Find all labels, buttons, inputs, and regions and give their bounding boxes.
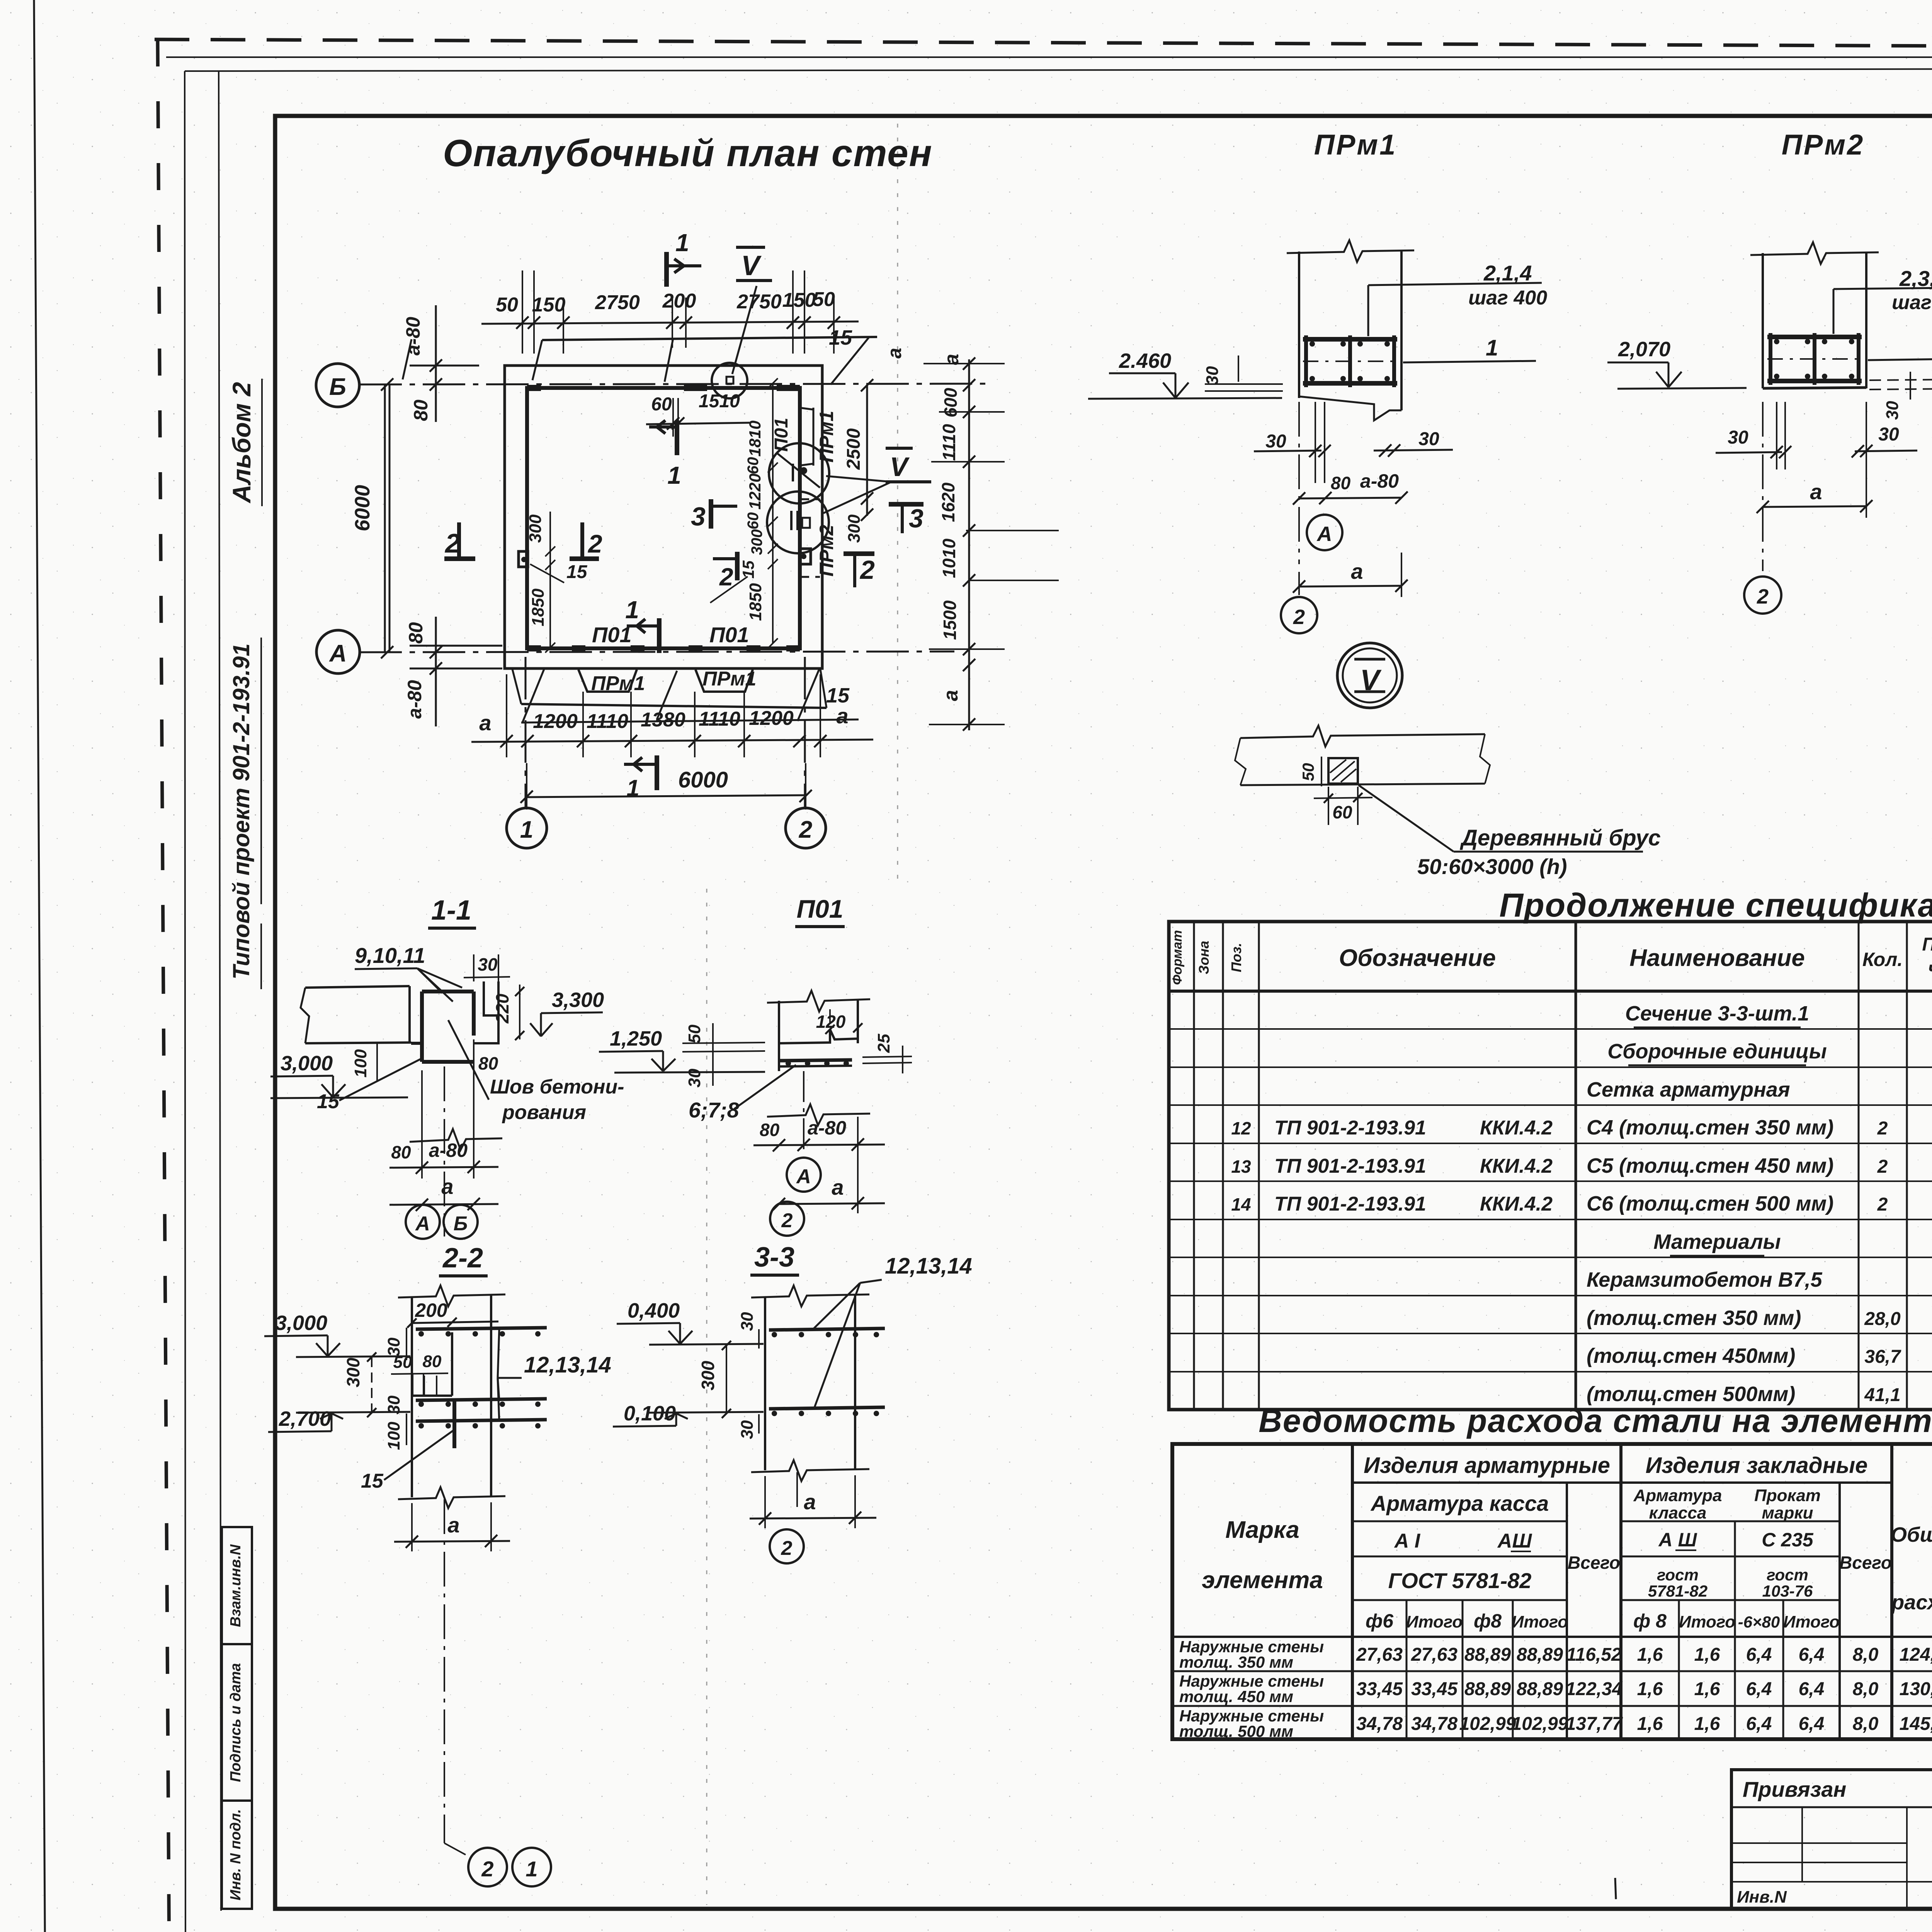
small mark below frame	[1615, 1878, 1616, 1899]
svg-text:(толщ.стен 350 мм): (толщ.стен 350 мм)	[1587, 1306, 1801, 1330]
plan outer wall contour	[505, 366, 822, 668]
3-3 circle 2	[770, 1529, 804, 1563]
3-3 bottom break	[751, 1460, 869, 1481]
svg-text:80: 80	[405, 622, 427, 644]
break line bottom	[410, 1129, 502, 1150]
svg-text:А Ш: А Ш	[1658, 1529, 1697, 1551]
axis 2 vertical	[804, 657, 806, 808]
svg-text:Всего: Всего	[1839, 1553, 1892, 1573]
svg-text:ПРм1: ПРм1	[816, 411, 837, 463]
svg-text:8,0: 8,0	[1853, 1714, 1879, 1734]
svg-text:толщ. 450 мм: толщ. 450 мм	[1179, 1687, 1293, 1706]
plan inner wall contour	[527, 388, 800, 648]
svg-text:класса: класса	[1649, 1503, 1707, 1522]
svg-text:Арматура: Арматура	[1633, 1486, 1722, 1505]
svg-text:гост: гост	[1767, 1566, 1808, 1584]
svg-text:Формат: Формат	[1170, 930, 1185, 985]
svg-text:116,52: 116,52	[1566, 1645, 1622, 1665]
slanted leaders bottom	[522, 669, 544, 723]
svg-text:1: 1	[626, 775, 639, 801]
3-3 top break	[751, 1286, 869, 1306]
svg-text:-6×80: -6×80	[1738, 1613, 1780, 1631]
svg-text:Сечение 3-3-шт.1: Сечение 3-3-шт.1	[1625, 1002, 1809, 1025]
svg-text:ПРм2: ПРм2	[816, 525, 837, 577]
outer dashed cut border top	[155, 39, 1932, 49]
svg-text:П01: П01	[592, 622, 632, 647]
svg-text:33,45: 33,45	[1356, 1679, 1403, 1699]
svg-text:1010: 1010	[939, 538, 959, 578]
svg-text:15: 15	[739, 560, 757, 578]
section 1-1 lower axis	[444, 1066, 445, 1236]
svg-text:1810: 1810	[746, 420, 764, 456]
svg-text:102,99: 102,99	[1512, 1714, 1568, 1734]
svg-text:а: а	[479, 711, 491, 735]
svg-text:ТП 901-2-193.91: ТП 901-2-193.91	[1274, 1193, 1426, 1215]
svg-text:12,13,14: 12,13,14	[524, 1352, 611, 1378]
П01 wall outline	[778, 1001, 780, 1071]
svg-text:600: 600	[940, 388, 961, 417]
svg-text:ГОСТ 5781-82: ГОСТ 5781-82	[1388, 1568, 1532, 1593]
svg-text:ПРм1: ПРм1	[591, 672, 645, 695]
svg-text:1: 1	[520, 816, 533, 843]
svg-text:Взам.инв.N: Взам.инв.N	[228, 1544, 244, 1627]
ПРм1 wall verticals	[1298, 252, 1300, 398]
Привязан rows	[1731, 1806, 1932, 1808]
right wall callout circles	[769, 443, 829, 503]
svg-text:12: 12	[1231, 1118, 1251, 1138]
svg-text:а: а	[836, 704, 848, 728]
3-3 rebar bottom	[769, 1407, 885, 1409]
svg-text:33,45: 33,45	[1411, 1679, 1458, 1699]
svg-text:13: 13	[1231, 1156, 1251, 1177]
svg-text:2: 2	[719, 563, 733, 591]
svg-text:50: 50	[496, 294, 518, 316]
П01 circle 2	[770, 1202, 804, 1236]
svg-text:Опалубочный план стен: Опалубочный план стен	[443, 132, 933, 174]
svg-text:1-1: 1-1	[431, 895, 471, 926]
svg-text:6,4: 6,4	[1799, 1645, 1825, 1665]
svg-text:Зона: Зона	[1196, 941, 1212, 975]
svg-text:Итого: Итого	[1679, 1612, 1735, 1631]
dim 6000 bottom	[527, 795, 806, 797]
svg-text:ККИ.4.2: ККИ.4.2	[1480, 1155, 1553, 1177]
svg-text:рования: рования	[502, 1101, 586, 1124]
svg-text:Материалы: Материалы	[1653, 1230, 1781, 1253]
svg-text:2: 2	[481, 1857, 493, 1881]
svg-text:а-80: а-80	[808, 1117, 846, 1139]
main frame	[275, 116, 1932, 1909]
steel table outer frame	[1172, 1444, 1932, 1739]
П01 circle А	[787, 1158, 821, 1192]
svg-text:6,4: 6,4	[1799, 1714, 1825, 1734]
svg-text:Инв. N подл.: Инв. N подл.	[228, 1809, 244, 1900]
svg-text:124,52: 124,52	[1900, 1645, 1932, 1665]
section mark 1 (top)	[664, 252, 669, 287]
svg-text:50: 50	[1299, 763, 1317, 781]
wood beam detail lines	[1240, 726, 1485, 747]
svg-text:100: 100	[351, 1049, 370, 1078]
svg-text:2,3,4: 2,3,4	[1899, 266, 1932, 291]
svg-text:30: 30	[738, 1312, 757, 1331]
ПРм2 lintel frame КР2	[1767, 335, 1862, 339]
svg-text:2: 2	[781, 1209, 793, 1232]
svg-text:2-2: 2-2	[442, 1243, 483, 1274]
svg-text:9,10,11: 9,10,11	[355, 943, 425, 968]
svg-text:1380: 1380	[641, 709, 685, 731]
svg-text:а: а	[804, 1490, 816, 1514]
left stamp column boxes	[222, 1527, 252, 1909]
svg-text:1,6: 1,6	[1637, 1714, 1663, 1734]
2-2 bottom break	[398, 1487, 505, 1508]
svg-text:1620: 1620	[938, 482, 958, 522]
svg-text:Ведомость расхода стали на: Ведомость расхода стали на элемент, кг	[1259, 1403, 1932, 1439]
svg-text:1,250: 1,250	[610, 1027, 662, 1050]
svg-text:30: 30	[478, 954, 498, 975]
2-2 circles 2 1	[468, 1848, 507, 1886]
svg-text:2,700: 2,700	[279, 1407, 331, 1430]
ПРм2 wall verticals	[1762, 253, 1764, 388]
svg-text:80: 80	[1331, 473, 1351, 493]
svg-text:ККИ.4.2: ККИ.4.2	[1480, 1117, 1553, 1139]
svg-text:а: а	[940, 354, 963, 365]
svg-text:30: 30	[1203, 366, 1222, 385]
svg-text:а: а	[940, 690, 962, 701]
scan edge line left	[34, 0, 46, 1932]
svg-text:6,4: 6,4	[1746, 1679, 1772, 1699]
svg-text:30: 30	[1418, 429, 1439, 449]
opening edge marks on inner face	[572, 645, 585, 651]
small marker on left wall	[519, 551, 528, 567]
svg-text:5781-82: 5781-82	[1648, 1582, 1708, 1600]
svg-text:3,000: 3,000	[281, 1052, 333, 1075]
svg-text:2: 2	[1877, 1118, 1888, 1139]
section mark 2 exterior right	[844, 551, 874, 556]
fold crease vertical dotted lower	[706, 889, 707, 1905]
right wall window dashed	[799, 498, 820, 500]
svg-text:300: 300	[698, 1361, 718, 1390]
svg-text:С6 (толщ.стен 500 мм): С6 (толщ.стен 500 мм)	[1587, 1192, 1833, 1215]
2-2 top break	[398, 1286, 505, 1306]
section mark 2 interior right	[735, 552, 740, 580]
svg-text:Типовой проект 901-2-193.91: Типовой проект 901-2-193.91	[228, 643, 254, 980]
svg-text:а-80: а-80	[402, 317, 424, 355]
svg-text:145,77: 145,77	[1900, 1714, 1932, 1734]
svg-text:1110: 1110	[939, 424, 959, 461]
svg-text:Подпись и дата: Подпись и дата	[228, 1663, 244, 1782]
svg-text:200: 200	[662, 290, 696, 312]
svg-text:25: 25	[874, 1034, 893, 1053]
thin border left	[185, 71, 185, 1932]
svg-text:1: 1	[667, 461, 681, 489]
svg-text:1200: 1200	[533, 710, 578, 733]
svg-text:Поз.: Поз.	[1228, 943, 1244, 972]
svg-text:1220: 1220	[746, 473, 764, 509]
circles А Б section 1-1	[406, 1205, 440, 1239]
continuation row lines	[1169, 1028, 1932, 1030]
svg-text:2750: 2750	[736, 291, 782, 313]
svg-text:1,6: 1,6	[1694, 1679, 1720, 1699]
svg-text:а-80: а-80	[1360, 470, 1399, 492]
3-3 rebar top	[769, 1328, 885, 1330]
svg-text:80: 80	[391, 1142, 411, 1162]
axis А horizontal	[359, 651, 954, 652]
svg-text:2750: 2750	[595, 291, 640, 314]
svg-text:Б: Б	[454, 1213, 468, 1235]
formwork band bottom with window openings ПРм1	[521, 704, 827, 708]
svg-text:а-80: а-80	[404, 680, 425, 719]
svg-text:80: 80	[423, 1352, 442, 1371]
thin border line top A	[166, 56, 1932, 58]
svg-text:88,89: 88,89	[1517, 1645, 1563, 1665]
svg-text:Общий: Общий	[1891, 1523, 1932, 1546]
dim 6000 left vertical	[384, 384, 386, 652]
svg-text:28,0: 28,0	[1864, 1309, 1901, 1329]
continuation table column lines	[1193, 922, 1195, 1410]
3-3 axis	[796, 1472, 798, 1511]
svg-text:15: 15	[317, 1090, 340, 1113]
svg-text:6,4: 6,4	[1746, 1645, 1772, 1665]
svg-text:V: V	[890, 452, 910, 482]
2-2 wall verticals	[411, 1296, 413, 1497]
svg-text:П01: П01	[797, 895, 844, 923]
svg-text:шаг 400: шаг 400	[1892, 291, 1932, 314]
svg-text:6,4: 6,4	[1799, 1679, 1825, 1699]
continuation header bottom	[1169, 990, 1932, 993]
axis 1 vertical	[525, 657, 527, 808]
svg-text:88,89: 88,89	[1464, 1645, 1511, 1665]
ПРм1 top break line	[1287, 240, 1414, 262]
ПРм2 top break line	[1750, 242, 1879, 264]
svg-text:14: 14	[1231, 1194, 1251, 1214]
svg-text:2500: 2500	[844, 428, 864, 470]
svg-text:расход: расход	[1891, 1591, 1932, 1614]
П01 break bottom	[767, 1104, 870, 1125]
svg-text:2: 2	[587, 529, 602, 558]
formwork sheathing line above top wall	[542, 337, 877, 340]
svg-text:1850: 1850	[746, 583, 765, 621]
svg-text:шаг 400: шаг 400	[1468, 287, 1547, 309]
interior section mark 1 (bottom)	[657, 618, 662, 653]
callout circle on top wall	[712, 363, 747, 398]
svg-text:V: V	[741, 250, 762, 281]
svg-text:толщ. 350 мм: толщ. 350 мм	[1179, 1653, 1293, 1671]
svg-text:1850: 1850	[529, 588, 548, 626]
svg-text:а: а	[884, 348, 905, 359]
axis circle 1	[507, 808, 547, 848]
svg-text:ПРм1: ПРм1	[1314, 129, 1397, 161]
svg-text:50: 50	[813, 288, 835, 311]
ПРм1 axis circle А	[1307, 515, 1342, 550]
svg-text:30: 30	[738, 1420, 757, 1439]
svg-text:15: 15	[566, 562, 588, 582]
svg-text:1: 1	[675, 229, 689, 257]
svg-text:Прокат: Прокат	[1754, 1486, 1821, 1505]
svg-text:Обозначение: Обозначение	[1339, 945, 1496, 971]
svg-text:элемента: элемента	[1202, 1567, 1323, 1594]
svg-text:34,78: 34,78	[1356, 1714, 1403, 1734]
2-2 rebar lower	[416, 1420, 547, 1421]
svg-text:Марка: Марка	[1225, 1517, 1299, 1543]
svg-text:толщ. 500 мм: толщ. 500 мм	[1179, 1722, 1293, 1740]
node V double circle	[1337, 643, 1402, 708]
right vertical dimension chain	[968, 359, 970, 730]
bottom dimension chain a 1200 1110 1380 1110 1200 a	[471, 740, 873, 742]
axis circle А	[316, 630, 360, 673]
svg-text:Керамзитобетон В7,5: Керамзитобетон В7,5	[1587, 1268, 1823, 1291]
svg-text:а: а	[441, 1174, 453, 1199]
fold crease vertical dotted upper	[897, 124, 898, 889]
svg-text:чание: чание	[1928, 958, 1932, 979]
ПРм1 axis circle 2	[1298, 572, 1300, 597]
svg-text:Приме-: Приме-	[1922, 934, 1932, 955]
svg-text:1110: 1110	[699, 708, 740, 730]
svg-text:2: 2	[859, 555, 875, 585]
svg-text:Итого: Итого	[1512, 1612, 1568, 1631]
svg-text:300: 300	[845, 514, 864, 543]
svg-text:103-76: 103-76	[1762, 1582, 1813, 1600]
ПРм1 bottom step	[1299, 396, 1401, 420]
svg-text:Шов бетони-: Шов бетони-	[490, 1076, 624, 1098]
svg-text:2,070: 2,070	[1618, 338, 1670, 361]
svg-text:300: 300	[748, 529, 765, 555]
svg-text:30: 30	[1265, 431, 1286, 452]
svg-text:2,1,4: 2,1,4	[1483, 261, 1532, 285]
svg-text:3-3: 3-3	[754, 1242, 794, 1273]
svg-text:15: 15	[829, 326, 852, 349]
svg-text:30: 30	[1728, 427, 1748, 448]
svg-text:88,89: 88,89	[1517, 1679, 1563, 1699]
svg-text:ТП 901-2-193.91: ТП 901-2-193.91	[1274, 1155, 1426, 1177]
svg-text:1,6: 1,6	[1637, 1679, 1663, 1699]
svg-text:27,63: 27,63	[1411, 1645, 1458, 1665]
svg-text:2: 2	[1293, 605, 1305, 629]
svg-text:12,13,14: 12,13,14	[885, 1253, 972, 1279]
2-2 rebar middle	[416, 1399, 547, 1400]
slab left band	[305, 986, 410, 988]
svg-text:130,34: 130,34	[1900, 1679, 1932, 1699]
svg-text:6,4: 6,4	[1746, 1714, 1772, 1734]
svg-text:150: 150	[532, 294, 566, 316]
svg-text:А: А	[329, 640, 347, 667]
svg-text:Наименование: Наименование	[1629, 945, 1805, 971]
svg-text:Продолжение спецификации: Продолжение спецификации	[1499, 887, 1932, 924]
svg-text:С4 (толщ.стен 350 мм): С4 (толщ.стен 350 мм)	[1587, 1116, 1833, 1139]
svg-text:80: 80	[478, 1053, 498, 1073]
svg-text:(толщ.стен 500мм): (толщ.стен 500мм)	[1587, 1383, 1795, 1406]
svg-text:88,89: 88,89	[1464, 1679, 1511, 1699]
svg-text:Арматура касса: Арматура касса	[1370, 1491, 1549, 1515]
svg-text:Б: Б	[329, 374, 346, 400]
svg-text:1500: 1500	[940, 600, 960, 640]
svg-text:ф8: ф8	[1474, 1610, 1502, 1632]
svg-text:марки: марки	[1762, 1503, 1813, 1522]
svg-text:а: а	[832, 1175, 844, 1199]
svg-text:а: а	[1810, 480, 1822, 504]
wall corner profile	[408, 986, 411, 1043]
axis circle 2	[786, 808, 826, 848]
axis circle Б	[316, 364, 359, 407]
svg-text:100: 100	[384, 1422, 403, 1450]
window opening trapezoid right	[696, 670, 753, 692]
svg-text:60: 60	[1332, 802, 1352, 822]
outer dashed cut border left	[158, 39, 169, 1932]
wood beam square with hatch	[1328, 758, 1358, 784]
svg-text:Кол.: Кол.	[1862, 949, 1903, 970]
svg-text:50: 50	[393, 1353, 412, 1372]
dim a-80 / 80 near axis Б	[435, 305, 437, 422]
svg-text:А: А	[1316, 522, 1332, 546]
svg-text:Привязан: Привязан	[1743, 1777, 1846, 1801]
svg-text:36,7: 36,7	[1864, 1347, 1901, 1367]
interior section mark 1 (center)	[675, 420, 679, 455]
svg-text:Альбом 2: Альбом 2	[227, 382, 256, 503]
svg-text:Итого: Итого	[1406, 1612, 1463, 1631]
svg-text:ККИ.4.2: ККИ.4.2	[1480, 1193, 1553, 1215]
svg-text:15: 15	[361, 1470, 384, 1492]
svg-text:122,34: 122,34	[1566, 1679, 1622, 1699]
svg-text:34,78: 34,78	[1411, 1714, 1458, 1734]
svg-text:150: 150	[782, 289, 816, 311]
svg-text:2: 2	[1757, 585, 1769, 608]
svg-text:ТП 901-2-193.91: ТП 901-2-193.91	[1274, 1117, 1426, 1139]
svg-text:Итого: Итого	[1783, 1612, 1840, 1631]
2-2 window notch	[451, 1332, 453, 1396]
svg-text:50:60×3000 (h): 50:60×3000 (h)	[1417, 854, 1567, 879]
svg-text:30: 30	[1878, 424, 1899, 445]
Привязан block outer	[1731, 1770, 1932, 1909]
interior dim chain right wall	[772, 383, 774, 643]
section mark 2 interior left	[580, 522, 584, 556]
svg-text:ПРм2: ПРм2	[1782, 129, 1864, 161]
ПРм1 lintel frame КР1	[1303, 337, 1397, 342]
section mark 1 at 6000 dim	[655, 755, 659, 790]
svg-text:3: 3	[691, 502, 706, 531]
3-3 wall verticals	[764, 1296, 766, 1470]
svg-text:6;7;8: 6;7;8	[689, 1098, 740, 1122]
svg-text:200: 200	[415, 1299, 447, 1321]
continuation table outer frame	[1169, 922, 1932, 1410]
svg-text:ф6: ф6	[1366, 1610, 1394, 1632]
svg-text:П01: П01	[771, 418, 792, 452]
svg-text:30: 30	[1883, 401, 1902, 420]
svg-text:300: 300	[526, 514, 545, 543]
2-2 rebar top	[416, 1328, 547, 1329]
svg-text:Деревянный брус: Деревянный брус	[1459, 825, 1661, 850]
svg-text:2: 2	[1877, 1194, 1888, 1215]
section mark 3 interior	[709, 499, 713, 529]
svg-text:8,0: 8,0	[1853, 1645, 1879, 1665]
svg-text:2: 2	[781, 1537, 793, 1560]
svg-text:1510: 1510	[699, 391, 740, 412]
ПРм2 axis line and circle 2	[1762, 402, 1764, 571]
svg-text:А: А	[415, 1213, 430, 1235]
window niche lines right wall	[813, 408, 815, 466]
svg-text:8,0: 8,0	[1853, 1679, 1879, 1699]
dim 2500 right sub-chain	[866, 384, 868, 516]
small marker on right wall	[800, 549, 811, 564]
svg-text:Сетка арматурная: Сетка арматурная	[1587, 1078, 1790, 1101]
inner sheet edge vertical	[219, 71, 221, 1911]
svg-text:60: 60	[745, 457, 762, 474]
steel table verticals	[1351, 1444, 1354, 1739]
svg-text:0,400: 0,400	[628, 1299, 680, 1322]
svg-text:300: 300	[343, 1357, 363, 1387]
svg-text:гост: гост	[1657, 1566, 1699, 1584]
svg-text:3,000: 3,000	[275, 1311, 327, 1335]
svg-text:1,6: 1,6	[1637, 1645, 1663, 1665]
svg-text:102,99: 102,99	[1459, 1714, 1516, 1734]
2-2 axis line	[444, 1499, 445, 1843]
